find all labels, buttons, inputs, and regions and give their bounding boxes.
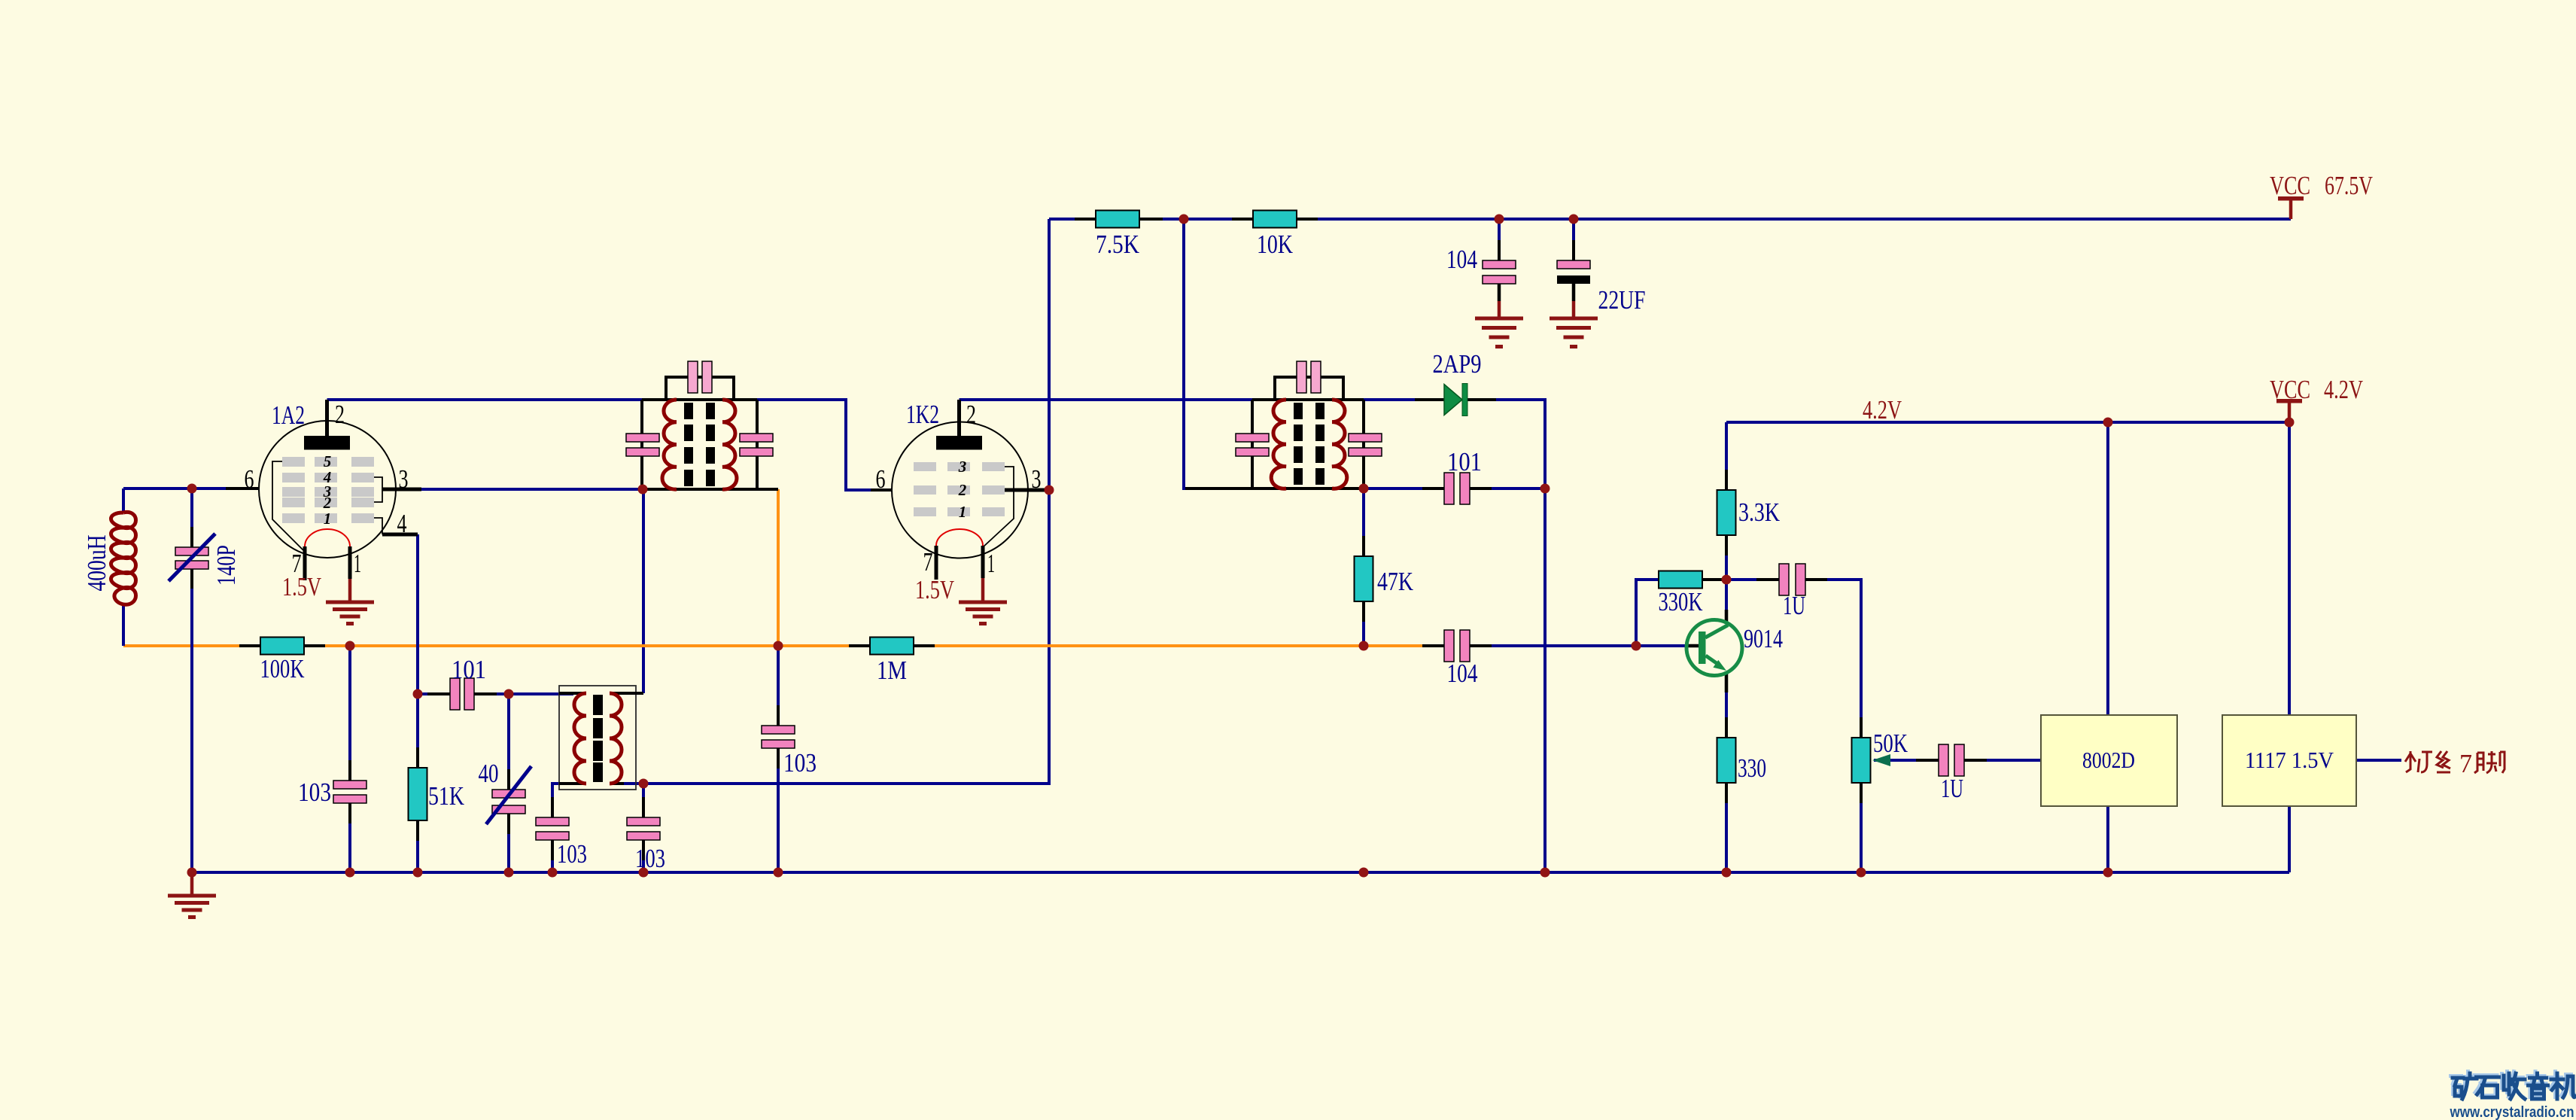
resistor R4 51K bbox=[409, 768, 465, 820]
T3 lead wires bbox=[559, 693, 643, 784]
svg-text:1U: 1U bbox=[1941, 774, 1963, 803]
svg-text:VCC: VCC bbox=[2270, 171, 2310, 200]
junction bus left end bbox=[187, 868, 197, 878]
svg-text:1U: 1U bbox=[1783, 591, 1805, 620]
wire 1A2 plate (pin2) to T1 primary top bbox=[327, 398, 643, 401]
wire black component stubs bbox=[192, 240, 1987, 860]
svg-text:2: 2 bbox=[958, 481, 967, 499]
svg-text:8002D: 8002D bbox=[2082, 747, 2135, 773]
capacitor 104 decoupling bbox=[1446, 245, 1516, 284]
capacitor C 103 oscillator left bbox=[536, 817, 587, 869]
svg-text:10K: 10K bbox=[1257, 230, 1293, 259]
V1 plate bar bbox=[304, 436, 350, 450]
V2 pin7 lead bbox=[935, 546, 938, 580]
junction bus detector branch bbox=[1540, 868, 1550, 878]
svg-text:2: 2 bbox=[335, 400, 345, 429]
junction bus feedback bbox=[774, 868, 783, 878]
junction 22UF on rail bbox=[1569, 215, 1579, 224]
capacitor C 101 oscillator coupling bbox=[450, 655, 486, 710]
svg-text:50K: 50K bbox=[1873, 729, 1908, 758]
wire 1A2 pin4 vertical bbox=[416, 534, 419, 694]
junction pin4/101 node bbox=[413, 689, 423, 699]
svg-text:1: 1 bbox=[324, 510, 332, 528]
wire 47K bottom lead bbox=[1362, 601, 1365, 646]
V2 plate lead pin 2 bbox=[957, 400, 961, 436]
junction bus 40 bbox=[504, 868, 514, 878]
resistor R3 100K bbox=[239, 638, 325, 684]
wire T1 secondary bottom feedback (orange) bbox=[777, 489, 780, 646]
T2 primary winding bbox=[1271, 400, 1286, 488]
wire 50K bottom lead bbox=[1860, 783, 1863, 872]
wire 101 row right segment bbox=[1470, 487, 1545, 490]
junction bus 103c bbox=[639, 868, 649, 878]
junction base bias node bbox=[1632, 641, 1641, 651]
capacitor C 103 feedback branch bbox=[762, 726, 817, 778]
svg-text:40: 40 bbox=[479, 759, 499, 788]
svg-text:VCC: VCC bbox=[2270, 375, 2310, 404]
variable capacitor 140P bbox=[169, 534, 241, 586]
ground under 104 bbox=[1475, 284, 1523, 347]
T2 core bars bbox=[1294, 403, 1324, 485]
ground under 22UF bbox=[1550, 284, 1598, 347]
wire diode cathode to corner down bbox=[1467, 400, 1545, 488]
wire 1K2 pin3 node down and left to oscillator coil bbox=[643, 490, 1049, 784]
V2 right bracket bbox=[983, 467, 1014, 547]
T1 left capacitor bbox=[626, 434, 659, 442]
svg-text:330: 330 bbox=[1738, 753, 1766, 783]
wire 330K left lead down to base bbox=[1636, 580, 1659, 646]
svg-text:3: 3 bbox=[399, 464, 409, 494]
V2 plate bar bbox=[936, 436, 982, 450]
wire 140P branch lower to ground bus bbox=[190, 568, 193, 872]
watermark logo 矿石收音机 bbox=[2451, 1072, 2576, 1100]
V1 right bracket bbox=[374, 477, 396, 502]
svg-text:22UF: 22UF bbox=[1598, 285, 1646, 315]
V2 filament arc bbox=[936, 529, 983, 546]
wire 1U to 8002D input bbox=[1964, 759, 2041, 762]
ground under V1 bbox=[326, 602, 374, 624]
diode D1 2AP9 bbox=[1415, 349, 1496, 416]
transistor Q1 9014 bbox=[1686, 610, 1783, 692]
T1 right capacitor bbox=[740, 434, 773, 442]
V1 pin6 lead bbox=[226, 487, 259, 490]
transformer T1 IF bbox=[626, 361, 778, 489]
wire T2 top to diode and onward down bbox=[1364, 398, 1444, 401]
capacitor C 103 oscillator right bbox=[627, 817, 665, 873]
junction T1 bottom node bbox=[638, 485, 648, 495]
V1 left bracket bbox=[272, 461, 303, 550]
svg-text:1.5V: 1.5V bbox=[915, 575, 954, 604]
V1 envelope bbox=[259, 421, 396, 558]
junction bus 47K branch bbox=[1359, 868, 1369, 878]
svg-text:2AP9: 2AP9 bbox=[1433, 349, 1482, 379]
wire detector output down to ground bus bbox=[1543, 488, 1547, 872]
resistor R5 1M bbox=[849, 638, 935, 686]
V1 pin4 bracket bbox=[374, 518, 382, 534]
inductor 400uH antenna coil bbox=[82, 459, 140, 604]
svg-text:3: 3 bbox=[958, 458, 967, 476]
ground main bottom-left bbox=[168, 872, 216, 918]
ground under V2 bbox=[959, 602, 1007, 624]
svg-text:7.5K: 7.5K bbox=[1096, 230, 1139, 259]
svg-text:1M: 1M bbox=[877, 656, 907, 685]
svg-text:3: 3 bbox=[1032, 464, 1042, 494]
IC U2 8002D audio amp block bbox=[2041, 715, 2177, 806]
capacitor C 1U base bypass bbox=[1779, 564, 1805, 620]
resistor R8 330K bbox=[1659, 571, 1727, 617]
wire VCC 67.5V top rail bbox=[1049, 218, 2291, 221]
resistor R7 3.3K bbox=[1717, 490, 1781, 535]
wire ground bus bbox=[192, 871, 2289, 874]
junction 100K/103 node bbox=[345, 641, 355, 651]
junction antenna/grid node bbox=[187, 484, 197, 494]
svg-text:101: 101 bbox=[1447, 447, 1482, 476]
junction bus 50K branch bbox=[1857, 868, 1866, 878]
wire T1 feedback below orange bus through 103 bbox=[777, 646, 780, 872]
wire 140P branch upper bbox=[190, 488, 193, 547]
svg-text:104: 104 bbox=[1446, 245, 1477, 274]
wire 1A2 pin3 to T1 primary bottom bbox=[396, 488, 642, 491]
wire VCC 4.2V rail bbox=[1726, 421, 2289, 424]
svg-text:1.5V: 1.5V bbox=[282, 572, 321, 601]
wire 7.5K/10K node down to T2 bottom bbox=[1184, 219, 1252, 488]
variable capacitor 40 trimmer bbox=[479, 759, 532, 824]
svg-text:103: 103 bbox=[783, 748, 817, 778]
junction bus 103b bbox=[548, 868, 558, 878]
capacitor 22UF electrolytic bbox=[1557, 248, 1646, 315]
potentiometer R10 50K bbox=[1852, 729, 1908, 783]
svg-text:1: 1 bbox=[354, 549, 361, 578]
wire antenna coil top lead bbox=[122, 488, 125, 513]
T2 left capacitor bbox=[1236, 434, 1269, 442]
svg-text:104: 104 bbox=[1447, 659, 1478, 688]
svg-text:103: 103 bbox=[557, 839, 587, 869]
V1 pin4 lead bbox=[382, 533, 418, 537]
V1 plate lead pin 2 bbox=[325, 400, 329, 436]
wire 104 decoupling drop bbox=[1498, 219, 1501, 260]
capacitor C 101 detector bbox=[1444, 447, 1482, 504]
svg-text:47K: 47K bbox=[1377, 567, 1413, 596]
V1 pin1 lead bbox=[348, 546, 352, 579]
svg-text:67.5V: 67.5V bbox=[2325, 171, 2373, 200]
svg-text:www.crystalradio.cn: www.crystalradio.cn bbox=[2450, 1104, 2574, 1120]
svg-text:400uH: 400uH bbox=[82, 535, 111, 592]
wire T1 secondary top to 1K2 grid pin6 bbox=[757, 400, 892, 490]
wire AGC orange bus bbox=[123, 644, 1442, 647]
wire 101 row to oscillator bbox=[418, 692, 573, 695]
junction 40 trimmer node bbox=[504, 689, 514, 699]
resistor R2 10K bbox=[1232, 211, 1318, 260]
T3 box bbox=[559, 686, 636, 790]
wire 104 coupling cap to transistor base bbox=[1472, 644, 1698, 647]
svg-text:1: 1 bbox=[987, 549, 995, 578]
resistor R1 7.5K bbox=[1075, 211, 1163, 260]
junction bus 103a bbox=[345, 868, 355, 878]
wire 1117 supply drop bbox=[2288, 422, 2291, 715]
T3 right winding bbox=[610, 693, 622, 784]
wire antenna top horizontal bbox=[123, 487, 259, 490]
svg-text:6: 6 bbox=[876, 464, 886, 494]
wire 51K leads bbox=[416, 694, 419, 872]
T1 secondary winding bbox=[722, 400, 737, 489]
T1 core bars bbox=[684, 403, 715, 486]
V2 pin3 lead bbox=[1005, 488, 1049, 492]
svg-text:4: 4 bbox=[397, 509, 407, 538]
svg-text:1K2: 1K2 bbox=[906, 400, 939, 429]
T2 bridge wire bbox=[1275, 377, 1343, 400]
svg-text:1A2: 1A2 bbox=[272, 400, 305, 430]
resistor R6 47K bbox=[1355, 556, 1414, 601]
junction bus 51K bbox=[413, 868, 423, 878]
capacitor C 104 coupling bbox=[1444, 630, 1478, 688]
svg-text:1117 1.5V: 1117 1.5V bbox=[2245, 747, 2334, 773]
tube V2 1K2 bbox=[871, 400, 1049, 624]
T1 frame wires bbox=[642, 400, 778, 489]
wire 103 branch under 100K node bbox=[348, 646, 351, 872]
svg-text:7: 7 bbox=[2459, 749, 2472, 778]
junction 8002D on 4.2V rail bbox=[2103, 418, 2113, 428]
wire 330K right lead bbox=[1702, 578, 1726, 581]
T2 frame wires bbox=[1185, 400, 1364, 488]
IC U3 1117 1.5V regulator block bbox=[2222, 715, 2356, 806]
wire 40 trimmer branch bbox=[507, 694, 510, 872]
wire T1 primary bottom down to oscillator coil top bbox=[642, 489, 645, 693]
svg-text:9014: 9014 bbox=[1744, 624, 1783, 653]
svg-text:140P: 140P bbox=[211, 545, 241, 586]
transformer T2 IF bbox=[1185, 361, 1382, 488]
V1 pin1 to ground bbox=[348, 579, 352, 602]
wire 1K2 plate (pin2) to T2 primary top bbox=[960, 398, 1253, 401]
wire 3.3K leads bbox=[1725, 422, 1728, 580]
junction 1K2 pin3 node bbox=[1045, 485, 1054, 495]
T1 bridge capacitor bbox=[688, 361, 698, 393]
wire 1117 ground drop bbox=[2288, 806, 2291, 872]
wire 1U coupling row bbox=[1726, 580, 1861, 738]
V2 pin1 lead bbox=[981, 546, 985, 578]
wire top rail left drop to 1K2 pin 3 bbox=[1048, 219, 1051, 490]
V2 pin1 to ground bbox=[981, 578, 985, 602]
VCC 67.5V power symbol bbox=[2270, 171, 2373, 219]
wire 8002D ground drop bbox=[2106, 806, 2109, 872]
svg-text:1: 1 bbox=[959, 503, 967, 521]
resistor R9 330 emitter bbox=[1717, 738, 1767, 783]
T2 bridge capacitor bbox=[1297, 361, 1306, 393]
capacitor C 103 at 100K node bbox=[298, 775, 366, 809]
T3 core bars bbox=[593, 695, 603, 782]
wire 8002D supply drop bbox=[2106, 422, 2109, 715]
junction bus emitter branch bbox=[1722, 868, 1732, 878]
svg-text:4.2V: 4.2V bbox=[2324, 375, 2363, 404]
T1 bridge wire bbox=[666, 377, 734, 400]
junction collector bias node bbox=[1722, 575, 1732, 585]
svg-text:7: 7 bbox=[923, 547, 933, 577]
wire 1117 output to heater bbox=[2356, 759, 2401, 762]
wire 101 row left segment bbox=[1364, 487, 1444, 490]
capacitor C 1U output coupling bbox=[1939, 744, 1964, 803]
wire collector lead bbox=[1725, 580, 1728, 623]
svg-text:4.2V: 4.2V bbox=[1863, 395, 1902, 425]
svg-text:330K: 330K bbox=[1659, 587, 1703, 616]
V2 grid bars bbox=[914, 462, 1005, 516]
junction oscillator bottom node bbox=[639, 779, 649, 789]
wire antenna coil bottom lead bbox=[122, 604, 125, 646]
tube V1 1A2 bbox=[226, 400, 421, 624]
VCC 4.2V power symbol bbox=[2270, 375, 2363, 422]
svg-text:103: 103 bbox=[298, 778, 331, 807]
junction 47K on AGC bus bbox=[1359, 641, 1369, 651]
junction bus 8002D branch bbox=[2103, 868, 2113, 878]
V1 grid bars bbox=[282, 457, 374, 523]
svg-text:103: 103 bbox=[635, 844, 665, 873]
wire oscillator right bottom to 103 bbox=[624, 784, 643, 872]
V1 filament arc bbox=[305, 529, 350, 546]
junction 7.5K/10K node bbox=[1179, 215, 1189, 224]
T3 left winding bbox=[574, 693, 586, 784]
svg-text:3.3K: 3.3K bbox=[1738, 498, 1780, 527]
T2 right capacitor bbox=[1349, 434, 1382, 442]
junction T2 bottom node bbox=[1359, 484, 1369, 494]
wire oscillator left bottom to 103 bbox=[552, 784, 573, 872]
T2 secondary winding bbox=[1332, 400, 1347, 488]
svg-text:51K: 51K bbox=[428, 781, 464, 811]
wire 50K wiper to 1U bbox=[1874, 759, 1939, 762]
wire emitter to 330 bbox=[1725, 671, 1728, 872]
svg-text:100K: 100K bbox=[260, 654, 305, 683]
junction detector output node bbox=[1540, 484, 1550, 494]
junction VCC4.2 node bbox=[2285, 418, 2295, 428]
junction 104 on rail bbox=[1495, 215, 1504, 224]
svg-text:101: 101 bbox=[452, 655, 486, 684]
wire 47K top lead bbox=[1362, 488, 1365, 556]
label heater output 灯丝 7脚 bbox=[2405, 749, 2505, 778]
svg-text:6: 6 bbox=[245, 464, 254, 494]
V1 pin7 lead bbox=[303, 546, 307, 580]
transformer T3 oscillator coil bbox=[559, 686, 643, 790]
V2 envelope bbox=[892, 422, 1028, 558]
V1 pin3 lead bbox=[382, 488, 421, 492]
T1 primary winding bbox=[662, 400, 677, 489]
junction feedback on AGC bus bbox=[774, 641, 783, 651]
wire 22UF drop bbox=[1572, 219, 1575, 260]
svg-text:2: 2 bbox=[966, 400, 976, 429]
